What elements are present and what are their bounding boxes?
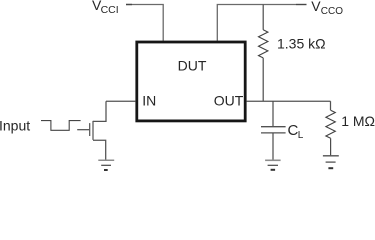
wire VCCI rail to DUT top: [126, 5, 163, 41]
ground under Q1: [98, 160, 114, 170]
svg-text:1.35 kΩ: 1.35 kΩ: [277, 36, 326, 52]
wire VCCO lead stub: [296, 4, 307, 6]
transistor Q1 source to ground: [93, 140, 106, 160]
wire resistor R1 top lead from VCCO rail: [262, 5, 264, 30]
wire VCCO vertical from DUT top: [217, 5, 296, 41]
wire capacitor CL bottom lead: [272, 133, 274, 160]
node VCCO label: [311, 0, 343, 17]
wire OUT corner down to R2: [330, 101, 332, 110]
wire R2 bottom lead: [330, 138, 332, 155]
transistor Q1 gate lead: [77, 129, 89, 131]
wire OUT: [247, 100, 331, 102]
ground under R2: [323, 156, 339, 168]
resistor R2 1 M: [326, 110, 335, 138]
wire resistor R1 bottom lead to OUT node: [262, 58, 264, 101]
transistor Q1 drain to IN wire: [93, 101, 106, 121]
svg-text:IN: IN: [142, 92, 156, 108]
svg-text:OUT: OUT: [214, 93, 244, 109]
svg-text:Input: Input: [0, 117, 30, 133]
transistor Q1 gate bar: [89, 123, 91, 136]
svg-text:V: V: [311, 0, 321, 14]
value label CL: [288, 122, 304, 141]
svg-text:DUT: DUT: [178, 57, 207, 73]
capacitor CL plates: [261, 127, 286, 133]
input pulse waveform symbol: [41, 121, 81, 131]
wire capacitor CL top lead: [272, 101, 274, 127]
svg-text:1 MΩ: 1 MΩ: [341, 113, 375, 129]
DUT box: [137, 42, 245, 121]
transistor Q1 channel bar: [92, 121, 94, 140]
wire IN: [106, 100, 135, 102]
svg-text:CCO: CCO: [321, 6, 343, 17]
wire VCCI lead stub: [126, 4, 132, 6]
svg-text:L: L: [298, 130, 304, 141]
resistor R1 1.35 k: [259, 30, 268, 58]
svg-text:CCI: CCI: [101, 4, 119, 16]
ground under CL: [265, 160, 281, 170]
node VCCI label: [92, 0, 119, 16]
